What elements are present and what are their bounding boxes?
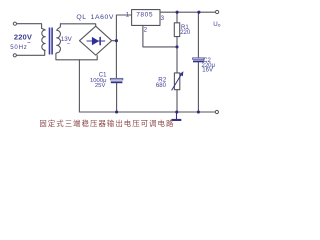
regulator U1 7805 box: [132, 10, 160, 26]
svg-text:1: 1: [126, 12, 130, 19]
wire primary bottom to bottom terminal: [17, 51, 45, 56]
output terminal minus: [215, 110, 218, 113]
svg-text:25V: 25V: [95, 83, 106, 89]
wire bottom ground rail: [79, 111, 215, 113]
capacitor C2 bottom plate: [193, 61, 204, 63]
wire plus node down to capacitor C1: [115, 41, 117, 79]
wire C1 bottom to rail: [116, 83, 118, 112]
svg-text:QL 1A60V: QL 1A60V: [76, 14, 114, 21]
transformer core bars: [49, 28, 53, 55]
wire output rail down to R1: [176, 12, 178, 23]
svg-text:7805: 7805: [136, 12, 153, 19]
svg-text:2: 2: [144, 26, 148, 33]
wire secondary top to bridge top vertex: [60, 24, 95, 27]
resistor R2 body: [174, 73, 179, 90]
svg-text:固定式三端稳压器输出电压可调电路: 固定式三端稳压器输出电压可调电路: [39, 119, 174, 128]
wire C2 bottom to rail: [197, 62, 199, 112]
transformer T secondary winding: [56, 24, 61, 54]
junction node bridge plus: [115, 39, 118, 42]
wire R2 bottom to rail: [176, 90, 178, 112]
wire bridge plus vertex to node: [112, 40, 117, 42]
capacitor C2 top plate: [193, 58, 205, 59]
wire output node down to capacitor C2: [197, 12, 199, 58]
output terminal plus Uo: [216, 10, 219, 13]
wire secondary bottom to bridge bottom vertex: [56, 54, 97, 60]
svg-text:3: 3: [161, 15, 165, 22]
junction node rail at C1: [115, 110, 118, 113]
AC input terminal bottom: [13, 54, 16, 57]
bridge diode triangle: [92, 37, 99, 45]
ground symbol: [176, 112, 178, 119]
capacitor C1 bottom plate: [111, 81, 123, 83]
wire node B down to R2: [176, 47, 178, 73]
junction node output rail at R1: [176, 11, 179, 14]
svg-text:16V: 16V: [202, 68, 213, 74]
svg-text:220: 220: [180, 30, 191, 36]
wire plus node up to 7805 pin 1: [116, 15, 131, 41]
capacitor C1 top plate: [110, 78, 122, 80]
resistor R1 body: [174, 23, 179, 37]
svg-text:50Hz: 50Hz: [10, 44, 27, 51]
junction node B pin2-R1-R2: [175, 45, 178, 48]
bridge diode lead: [87, 40, 106, 42]
potentiometer R2 arrow: [172, 71, 184, 90]
svg-text:o: o: [218, 23, 221, 28]
bridge rectifier QL diamond outline: [80, 26, 112, 55]
wire 7805 pin 3 output rail: [160, 11, 215, 13]
junction node rail at R2 ground: [175, 110, 178, 113]
wire AC common branch down to bottom rail: [78, 60, 80, 112]
junction node rail at C2: [197, 110, 200, 113]
junction node output rail at C2: [197, 11, 200, 14]
wire top terminal to primary: [17, 24, 42, 29]
wire R1 bottom to node B: [176, 37, 178, 47]
wire 7805 pin 2 down and right to node B: [143, 25, 177, 47]
bridge diode cathode bar: [99, 37, 101, 45]
transformer T primary winding: [42, 28, 46, 50]
svg-text:680: 680: [156, 83, 167, 89]
AC input terminal top: [13, 22, 16, 25]
